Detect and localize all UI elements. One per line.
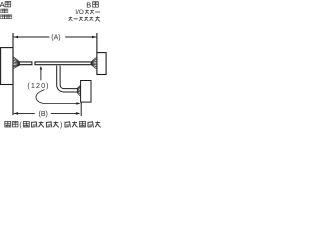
label B-end line1: B端 xyxy=(86,0,98,9)
(120) leader up arrow xyxy=(40,68,42,81)
svg-text:A: A xyxy=(0,0,5,9)
connector B1 boot hatching xyxy=(91,57,97,68)
arrowhead right of (A) xyxy=(92,36,96,39)
label B-end line3: ターミナル側 xyxy=(69,16,101,21)
svg-text:): ) xyxy=(60,122,62,129)
svg-text:(B): (B) xyxy=(39,111,48,118)
bottom extension line xyxy=(80,102,82,116)
connector A boot hatching xyxy=(14,57,20,69)
caption: 直線(曲がりなし)での長さ xyxy=(5,121,101,128)
cable segment 1 xyxy=(20,61,32,65)
connector B2 body xyxy=(81,81,91,103)
connector B1 body xyxy=(97,53,106,75)
label A-end line1: A端 xyxy=(0,0,11,9)
label A-end line2: 各種 xyxy=(1,9,5,13)
connector B2 boot hatching xyxy=(77,85,81,96)
branch junction verticals + bend xyxy=(57,66,77,92)
arrowhead right of (B) xyxy=(76,112,80,115)
label A-end line3: 機器側 xyxy=(1,15,5,19)
arrowhead left of (A) xyxy=(14,36,18,39)
arrowhead at bottom connector face (120 path) xyxy=(76,102,80,105)
label B-end line2: I/Oリレー xyxy=(75,9,100,16)
svg-text:(A): (A) xyxy=(51,35,60,42)
(120) curved leader to connector face xyxy=(36,90,79,104)
svg-text:B: B xyxy=(86,0,91,9)
left extension line xyxy=(12,33,14,115)
arrowhead left of (B) xyxy=(14,112,18,115)
dimension line (B) xyxy=(14,112,80,114)
svg-text:I/O: I/O xyxy=(75,9,84,16)
svg-text:(120): (120) xyxy=(27,81,49,90)
connector A body xyxy=(1,48,13,85)
cable segment 2 (main run) xyxy=(35,61,91,65)
right extension line xyxy=(96,33,98,53)
dimension line (A) xyxy=(14,36,97,38)
